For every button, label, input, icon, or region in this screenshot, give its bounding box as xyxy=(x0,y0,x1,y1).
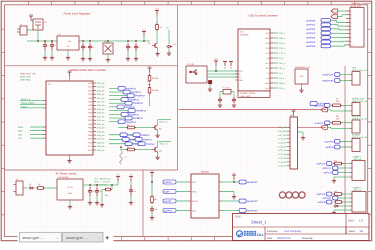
ground C1 xyxy=(43,50,47,60)
ground C3 xyxy=(81,51,85,61)
company label xyxy=(267,230,302,233)
net flag USB_D6 xyxy=(306,44,331,48)
svg-text:D38_net: D38_net xyxy=(97,141,105,144)
net flag sensTrig xyxy=(163,190,176,194)
svg-text:gLedPort: gLedPort xyxy=(315,104,325,107)
svg-text:LCD_D5: LCD_D5 xyxy=(278,157,287,160)
crystal wires xyxy=(220,92,234,97)
MCU annotation text xyxy=(20,73,36,82)
svg-text:RELAY_1: RELAY_1 xyxy=(160,121,168,124)
capacitor C1 xyxy=(43,41,49,50)
svg-text:GND GND: GND GND xyxy=(20,79,31,82)
title block outer box xyxy=(233,214,370,241)
power flag +5V output xyxy=(142,29,146,42)
svg-text:CTL: CTL xyxy=(166,27,169,30)
resistor R6 base xyxy=(126,146,136,151)
svg-text:R5: R5 xyxy=(127,124,129,127)
diode D3 xyxy=(29,183,35,189)
svg-text:Prt34Port: Prt34Port xyxy=(136,110,146,113)
svg-text:usbPort6: usbPort6 xyxy=(306,45,316,48)
svg-text:LCD_D0: LCD_D0 xyxy=(278,138,287,141)
svg-text:1.0: 1.0 xyxy=(359,219,363,223)
svg-text:C10: C10 xyxy=(92,190,95,193)
svg-text:R13: R13 xyxy=(334,190,337,193)
tab bar backing xyxy=(18,232,114,243)
svg-text:D3: D3 xyxy=(29,183,31,186)
svg-text:J2 USB: J2 USB xyxy=(187,63,194,66)
svg-text:stpPort1: stpPort1 xyxy=(317,163,326,166)
svg-text:R12: R12 xyxy=(334,160,337,163)
svg-text:XTAL2: XTAL2 xyxy=(21,105,28,108)
svg-text:XTAL1_16MHz: XTAL1_16MHz xyxy=(21,102,34,105)
svg-text:LCD_RS: LCD_RS xyxy=(278,126,287,129)
power flag J4 xyxy=(292,108,296,116)
svg-text:V5: V5 xyxy=(230,67,232,70)
U6 right pin stubs xyxy=(219,182,222,211)
svg-text:R9: R9 xyxy=(38,183,40,186)
svg-text:Sheet_1: Sheet_1 xyxy=(251,219,267,224)
svg-text:Sensor: Sensor xyxy=(201,171,209,174)
EDA logo xyxy=(237,231,265,237)
svg-text:+5V = 800mA max: +5V = 800mA max xyxy=(94,178,110,181)
wire flag to R1 xyxy=(156,15,158,23)
power flag C12 xyxy=(129,174,133,182)
connector P3 RED_LED xyxy=(349,120,360,133)
svg-text:R6: R6 xyxy=(127,146,129,149)
svg-text:AVCC VCC: AVCC VCC xyxy=(20,76,32,79)
connector P6 box xyxy=(352,192,366,213)
power flag sensor rail xyxy=(150,170,154,178)
regulator U5 box xyxy=(57,176,83,200)
svg-text:smart gym ....: smart gym .... xyxy=(66,236,88,240)
svg-text:relayPortB: relayPortB xyxy=(322,80,333,83)
wire P6 pin5 ground xyxy=(332,210,349,215)
svg-text:D36_net: D36_net xyxy=(97,134,105,137)
capacitor C5 xyxy=(126,43,132,51)
svg-text:D40_net: D40_net xyxy=(97,149,105,152)
svg-text:AREF: AREF xyxy=(18,126,24,129)
net flag outB xyxy=(239,199,258,203)
wire D- xyxy=(207,73,238,75)
svg-text:C6: C6 xyxy=(138,46,140,49)
svg-text:dirPort2: dirPort2 xyxy=(323,197,332,200)
section title: Power Input Regulator xyxy=(64,13,91,16)
svg-text:SmartGym_1.DocBack: SmartGym_1.DocBack xyxy=(351,2,370,5)
svg-text:UD+_n: UD+_n xyxy=(279,62,285,65)
resistor R11 xyxy=(151,195,157,204)
power arrow flag 5V xyxy=(331,9,346,13)
svg-text:LCD_EN: LCD_EN xyxy=(278,134,286,137)
capacitor C9 xyxy=(232,97,236,103)
net flag redLed xyxy=(315,121,330,125)
connector P1 HOT xyxy=(349,72,360,86)
net flag USB_D3 xyxy=(306,32,331,36)
svg-text:R3 10K: R3 10K xyxy=(152,77,159,80)
svg-text:D2: D2 xyxy=(174,43,176,46)
capacitor C12 xyxy=(129,181,136,196)
svg-text:C4: C4 xyxy=(92,46,94,49)
sheet tab 2 smart gym xyxy=(63,232,103,242)
svg-text:D+: D+ xyxy=(239,76,241,79)
MCU left-side pins upper xyxy=(20,98,46,108)
svg-text:CTS_n: CTS_n xyxy=(279,52,285,55)
svg-text:REV:: REV: xyxy=(349,220,355,223)
svg-text:D29_net: D29_net xyxy=(97,108,105,111)
mounting hole M1 xyxy=(279,192,285,198)
net flag sensVcc xyxy=(163,180,176,184)
net flag USB_D5 xyxy=(306,40,331,44)
net flag Prt26 xyxy=(127,94,145,98)
svg-text:GND: GND xyxy=(18,130,23,133)
red arrow flag NEON1 xyxy=(321,108,328,112)
net flag outA xyxy=(239,180,258,184)
svg-text:gndPort: gndPort xyxy=(164,210,172,213)
svg-text:GND_n: GND_n xyxy=(279,82,286,85)
connector J4 1x12 box xyxy=(290,114,298,169)
label stepper driver 1 xyxy=(353,156,362,162)
sheet tab 1 smart gym xyxy=(19,232,61,242)
ground shield xyxy=(208,84,212,92)
capacitor C10 xyxy=(88,187,95,197)
wire R7 to P2 xyxy=(342,104,349,106)
ground C8 xyxy=(218,104,222,108)
regulator U1 AMS1117-5 xyxy=(57,33,79,50)
svg-text:RTS_n: RTS_n xyxy=(279,42,285,45)
svg-text:gndPort: gndPort xyxy=(326,146,334,149)
U6 left pins xyxy=(177,181,198,213)
resistor R5 base xyxy=(126,124,136,129)
net flag hotA xyxy=(322,73,340,77)
capacitor C8 xyxy=(218,97,222,103)
svg-text:LCD_D1: LCD_D1 xyxy=(278,142,287,145)
svg-text:smart gym ....: smart gym .... xyxy=(23,236,45,240)
power flags annotation xyxy=(223,62,233,70)
wire Q1 drain down xyxy=(31,21,38,42)
net flag Prt28 xyxy=(121,98,139,102)
net flag hotB xyxy=(322,79,340,83)
svg-text:Prt26Port: Prt26Port xyxy=(135,95,145,98)
svg-text:V3: V3 xyxy=(224,67,226,70)
svg-text:GND: GND xyxy=(68,192,73,195)
net flag stp2a xyxy=(317,192,332,196)
net flag stp1c xyxy=(324,171,338,175)
diode bridge D1 xyxy=(103,40,113,62)
svg-text:UD+: UD+ xyxy=(265,62,269,65)
svg-text:CH340G: CH340G xyxy=(240,34,249,37)
svg-text:TITLE:: TITLE: xyxy=(235,216,243,219)
connector P5 box xyxy=(352,161,365,181)
MCU bottom pin to ground xyxy=(67,155,71,163)
power flag U6 xyxy=(232,172,236,182)
wire J5 out xyxy=(23,187,27,189)
svg-text:R4 10K: R4 10K xyxy=(152,89,159,92)
svg-text:P46Port: P46Port xyxy=(141,134,150,137)
svg-text:C1: C1 xyxy=(47,44,49,47)
wire P5 pin1 with resistor R12 xyxy=(333,160,349,165)
wire P4 pin2 xyxy=(340,146,349,148)
svg-text:D26_net: D26_net xyxy=(97,97,105,100)
net flag P44 xyxy=(120,133,137,137)
svg-text:R10: R10 xyxy=(105,194,108,197)
MCU U2 box xyxy=(46,81,93,155)
svg-text:D25_net: D25_net xyxy=(97,93,105,96)
ground C11 xyxy=(95,196,99,205)
wire arrow to P2 pin2 xyxy=(328,110,350,111)
svg-text:×: × xyxy=(57,236,59,240)
wire U6 pin3 xyxy=(222,200,239,202)
net flag USB_D2 xyxy=(306,27,331,31)
regulator gnd pin xyxy=(66,50,70,60)
J4 left pins with nets xyxy=(278,126,290,168)
net flag stp1a xyxy=(317,162,332,166)
red wire NEON2 to RED_LED xyxy=(179,126,327,128)
label HOT connector xyxy=(352,66,368,72)
net flag P46 xyxy=(133,133,150,137)
mounting hole M2 xyxy=(286,192,292,198)
svg-text:usbPort3: usbPort3 xyxy=(306,32,316,35)
svg-text:D28_net: D28_net xyxy=(97,104,105,107)
svg-text:DTR_n: DTR_n xyxy=(279,47,285,50)
sheet number label top-right xyxy=(351,2,370,5)
wire U5 output rail xyxy=(83,184,118,186)
net flag P12 xyxy=(138,142,155,146)
wires MCU to net flags xyxy=(109,88,128,121)
net flag sensEcho xyxy=(163,199,176,203)
svg-text:D37_net: D37_net xyxy=(97,138,105,141)
svg-text:Company:: Company: xyxy=(267,230,278,233)
wire P6 pin4 diode D4 xyxy=(334,205,350,208)
svg-text:D30_net: D30_net xyxy=(97,112,105,115)
net flag outC xyxy=(239,209,258,213)
net flag USB_D1 xyxy=(306,23,331,27)
svg-text:echoPt: echoPt xyxy=(164,200,172,203)
svg-text:snrPort: snrPort xyxy=(164,181,172,184)
svg-text:C12: C12 xyxy=(133,190,136,193)
capacitor C2 xyxy=(50,41,56,50)
svg-text:C3: C3 xyxy=(85,46,87,49)
section divider vertical x=143 xyxy=(142,170,144,237)
net flag USB_D0 xyxy=(306,19,331,23)
svg-text:ATMEGA2560 Main Controller: ATMEGA2560 Main Controller xyxy=(70,69,106,72)
diode D2 xyxy=(167,43,176,48)
svg-text:SDA: SDA xyxy=(18,133,23,136)
svg-text:ECHO: ECHO xyxy=(192,200,198,203)
ground sensor chain xyxy=(150,213,154,220)
svg-text:sensPort1: sensPort1 xyxy=(247,181,258,184)
svg-text:Q2: Q2 xyxy=(148,42,150,45)
svg-text:PWR_VCC +5V: PWR_VCC +5V xyxy=(20,73,36,76)
svg-text:LCD_D2: LCD_D2 xyxy=(278,145,287,148)
svg-text:P50Port: P50Port xyxy=(143,138,152,141)
buzzer LS1 xyxy=(120,151,127,165)
net flag Prt24 xyxy=(123,90,141,94)
svg-text:Prt38Port: Prt38Port xyxy=(133,117,143,120)
ground C5 xyxy=(126,51,130,61)
section divider vertical x=345 xyxy=(344,66,346,213)
ground C10 xyxy=(88,196,92,205)
wire HOT pin1 xyxy=(340,74,349,76)
label stepper driver 2 xyxy=(353,187,362,193)
transistor Q2 xyxy=(148,42,158,48)
wire R5 to Q3 xyxy=(118,127,152,129)
net flag Prt38 xyxy=(125,116,143,120)
svg-text:D27_net: D27_net xyxy=(97,101,105,104)
svg-text:usbPort2: usbPort2 xyxy=(306,28,316,31)
wire P5 pin2 xyxy=(338,167,349,169)
U3 part label box xyxy=(238,91,270,98)
svg-text:D24_net: D24_net xyxy=(97,89,105,92)
section title: Sensor xyxy=(201,171,209,174)
svg-text:Y1 12M: Y1 12M xyxy=(223,87,230,90)
ground D2 xyxy=(167,48,171,56)
crystal Y1 xyxy=(223,87,231,95)
svg-text:V3: V3 xyxy=(267,57,269,60)
P5 pin stubs xyxy=(349,164,352,178)
svg-text:usbPort4: usbPort4 xyxy=(306,37,316,40)
MCU right-side pins with net labels xyxy=(88,82,105,152)
net flag stp2b xyxy=(323,196,338,200)
svg-text:VIN = 7 ~ 12V DC: VIN = 7 ~ 12V DC xyxy=(94,181,111,184)
wire U6 pin2 gnd xyxy=(222,192,236,200)
capacitor C13 xyxy=(150,206,157,213)
svg-text:LCD_RW: LCD_RW xyxy=(278,130,287,133)
power flag VBUS xyxy=(214,58,219,71)
wire P5 pin4 ground xyxy=(332,177,349,183)
svg-text:Drawn By:: Drawn By: xyxy=(302,237,313,240)
U3 left pins xyxy=(236,70,244,82)
svg-text:UD-_n: UD-_n xyxy=(279,67,285,70)
svg-text:trigPt: trigPt xyxy=(164,191,170,194)
svg-text:Prt30Port: Prt30Port xyxy=(133,102,143,105)
resistor R7 xyxy=(331,104,342,107)
label RED_LED connector xyxy=(352,115,368,121)
svg-text:J1: J1 xyxy=(20,23,22,26)
J4 ground xyxy=(298,132,306,140)
svg-text:dirPort1: dirPort1 xyxy=(323,167,332,170)
section divider horizontal y=170 xyxy=(5,169,178,171)
label AUX connector xyxy=(352,133,368,139)
svg-text:usbPort0: usbPort0 xyxy=(306,19,316,22)
capacitor C11 xyxy=(95,187,102,197)
net flag stp2c xyxy=(318,200,332,204)
title block dividers xyxy=(233,214,370,241)
svg-text:D35_net: D35_net xyxy=(97,130,105,133)
wire arrow to P3 pin2 xyxy=(328,127,350,128)
power flag VIN xyxy=(29,13,33,21)
svg-text:D34_net: D34_net xyxy=(97,127,105,130)
svg-text:TRIG: TRIG xyxy=(192,190,197,193)
svg-text:R1: R1 xyxy=(160,26,162,29)
mounting hole M4 xyxy=(299,192,305,198)
power arrow flag GND xyxy=(331,15,346,19)
ground U5 xyxy=(68,200,72,209)
wire R1 to Q2 xyxy=(156,31,158,43)
section title: USB To Serial Converter xyxy=(248,15,277,18)
svg-text:Q4: Q4 xyxy=(159,150,162,153)
net flag P11 xyxy=(125,142,142,146)
svg-text:LCD_D3: LCD_D3 xyxy=(278,149,287,152)
junction dot xyxy=(149,84,151,86)
svg-text:RESET_N: RESET_N xyxy=(21,98,31,101)
wire VBUS xyxy=(207,70,238,72)
date label xyxy=(267,237,313,240)
power flag pullup chain xyxy=(148,65,152,73)
svg-text:sensPort3: sensPort3 xyxy=(247,210,258,213)
net flag buzB xyxy=(326,145,340,149)
svg-text:RXD_n: RXD_n xyxy=(279,37,285,40)
MCU left-side pins lower xyxy=(18,126,46,140)
svg-text:C5: C5 xyxy=(130,46,132,49)
label GREEN_LED connector xyxy=(352,97,368,103)
svg-text:enPort1: enPort1 xyxy=(324,172,333,175)
wire P5 pin3 xyxy=(338,172,349,174)
junction dot buzzer xyxy=(120,146,122,148)
svg-text:usbPort1: usbPort1 xyxy=(306,24,316,27)
net flag greenLed xyxy=(315,103,330,107)
svg-text:+: + xyxy=(105,235,109,242)
wire J1 to Q1 xyxy=(27,29,33,31)
connector J3 box xyxy=(350,8,364,48)
section divider vertical x=177.5 xyxy=(177,5,179,170)
svg-text:relayPortA: relayPortA xyxy=(322,74,333,77)
add sheet button xyxy=(105,235,109,242)
svg-text:D39_net: D39_net xyxy=(97,145,105,148)
wire output rail xyxy=(79,40,150,42)
ground U4 xyxy=(299,84,303,93)
svg-text:D31_net: D31_net xyxy=(97,115,105,118)
capacitor C7 shield xyxy=(209,81,212,84)
ground C2 xyxy=(50,50,54,60)
svg-text:C2: C2 xyxy=(54,44,56,47)
svg-text:D33_net: D33_net xyxy=(97,123,105,126)
svg-text:C13: C13 xyxy=(154,208,157,211)
svg-text:LS1: LS1 xyxy=(124,156,127,159)
wire U6 pin4 xyxy=(222,210,239,212)
svg-text:2023-02-09: 2023-02-09 xyxy=(277,237,291,240)
ground Q3 xyxy=(155,130,159,138)
DC jack connector J1 xyxy=(17,23,27,35)
svg-text:Date:: Date: xyxy=(267,237,273,240)
resistor R7 label xyxy=(336,98,340,103)
net flag P48 xyxy=(122,137,139,141)
svg-text:LCD_D4: LCD_D4 xyxy=(278,153,287,156)
wire P6 pin2 xyxy=(338,197,349,199)
svg-text:RCL: RCL xyxy=(265,87,269,90)
transistor Q3 xyxy=(152,125,162,131)
capacitor C6 xyxy=(134,43,140,51)
wire P6 pin1 resistor R13 xyxy=(333,190,349,195)
J3 data wires xyxy=(331,20,346,46)
wire R9 to U5 xyxy=(45,187,57,189)
wire P6 pin3 resistor R14 xyxy=(334,201,349,204)
svg-text:Your Company: Your Company xyxy=(284,230,302,233)
rev label xyxy=(349,219,364,223)
net flag Prt22 xyxy=(118,86,136,90)
wire R8 to P3 xyxy=(342,122,349,124)
net flag Prt32 xyxy=(117,105,135,109)
svg-text:J5: J5 xyxy=(16,178,18,181)
section title: ATMEGA Main Controller xyxy=(70,69,106,72)
svg-text:enPort2: enPort2 xyxy=(318,201,327,204)
red arrow flag NEON2 xyxy=(321,125,328,129)
P6 pin stubs xyxy=(349,194,352,210)
power flag +5V out xyxy=(116,174,120,186)
ground Q2 emitter xyxy=(155,48,159,56)
svg-text:V3_n: V3_n xyxy=(279,57,284,60)
svg-text:GND: GND xyxy=(192,209,197,212)
USB symbol inside J2 xyxy=(189,69,197,74)
sheet count label xyxy=(349,230,364,233)
